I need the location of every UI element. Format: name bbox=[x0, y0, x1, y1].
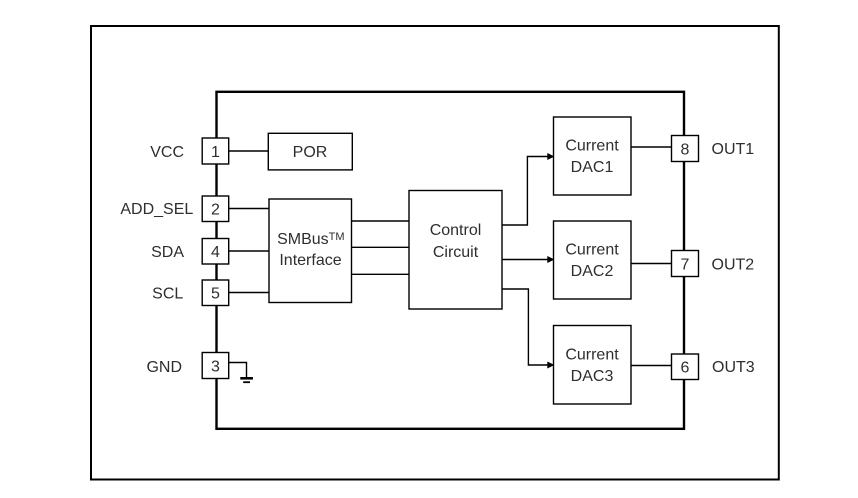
svg-text:DAC2: DAC2 bbox=[571, 263, 614, 280]
arrow into DAC2 bbox=[547, 256, 554, 263]
svg-text:GND: GND bbox=[146, 359, 182, 376]
svg-text:DAC3: DAC3 bbox=[571, 368, 614, 385]
svg-text:2: 2 bbox=[211, 202, 220, 219]
pin 5 box bbox=[202, 280, 229, 306]
wire Control to DAC3 bbox=[502, 289, 548, 365]
wire Control to DAC2 bbox=[502, 259, 548, 261]
IC boundary box bbox=[217, 92, 685, 429]
svg-text:4: 4 bbox=[211, 244, 220, 261]
ground bbox=[240, 377, 253, 383]
pin 3 box bbox=[202, 353, 229, 379]
wire pin4 to SMBus bbox=[229, 250, 270, 252]
svg-text:6: 6 bbox=[681, 360, 690, 377]
block Current DAC3 bbox=[554, 326, 632, 405]
svg-text:Current: Current bbox=[565, 242, 619, 259]
pin 6 box bbox=[672, 354, 699, 380]
outer figure frame bbox=[91, 26, 779, 480]
svg-text:7: 7 bbox=[681, 256, 690, 273]
block SMBus Interface U-SMB bbox=[269, 199, 352, 303]
block Current DAC2 bbox=[554, 221, 632, 299]
svg-text:SDA: SDA bbox=[151, 244, 184, 261]
pin 7 box bbox=[672, 251, 699, 277]
block POR bbox=[268, 133, 352, 170]
svg-text:POR: POR bbox=[293, 144, 328, 161]
svg-text:3: 3 bbox=[211, 358, 220, 375]
svg-text:1: 1 bbox=[211, 144, 220, 161]
wire SMBus to Control bus line 3 bbox=[352, 273, 410, 275]
svg-text:DAC1: DAC1 bbox=[571, 159, 614, 176]
svg-text:Interface: Interface bbox=[279, 252, 341, 269]
arrow into DAC3 bbox=[547, 362, 554, 369]
wire DAC2 to pin7 bbox=[631, 263, 672, 265]
wire DAC3 to pin6 bbox=[631, 365, 672, 367]
pin 1 box bbox=[202, 138, 229, 164]
svg-text:8: 8 bbox=[681, 141, 690, 158]
block Current DAC1 bbox=[554, 117, 632, 195]
wire DAC1 to pin8 bbox=[631, 146, 672, 148]
wire pin5 to SMBus bbox=[229, 292, 270, 294]
svg-text:ADD_SEL: ADD_SEL bbox=[120, 201, 193, 218]
pin 4 box bbox=[202, 239, 229, 265]
svg-text:SCL: SCL bbox=[152, 285, 183, 302]
svg-text:OUT2: OUT2 bbox=[712, 256, 755, 273]
wire Control to DAC1 bbox=[502, 157, 548, 226]
svg-text:Circuit: Circuit bbox=[433, 244, 479, 261]
svg-text:OUT1: OUT1 bbox=[712, 141, 755, 158]
svg-text:Current: Current bbox=[565, 346, 619, 363]
svg-text:5: 5 bbox=[211, 286, 220, 303]
block Control Circuit bbox=[409, 191, 502, 310]
wire pin2 to SMBus bbox=[229, 208, 270, 210]
wire SMBus to Control bus line 1 bbox=[352, 220, 410, 222]
arrow into DAC1 bbox=[547, 153, 554, 160]
wire SMBus to Control bus line 2 bbox=[352, 246, 410, 248]
svg-text:OUT3: OUT3 bbox=[712, 359, 755, 376]
pin 2 box bbox=[202, 196, 229, 222]
wire pin3 to ground bbox=[229, 363, 247, 378]
wire pin1 to POR bbox=[229, 150, 268, 152]
svg-text:VCC: VCC bbox=[150, 144, 184, 161]
pin 8 box bbox=[672, 136, 699, 162]
svg-text:Current: Current bbox=[565, 138, 619, 155]
svg-text:Control: Control bbox=[430, 222, 482, 239]
